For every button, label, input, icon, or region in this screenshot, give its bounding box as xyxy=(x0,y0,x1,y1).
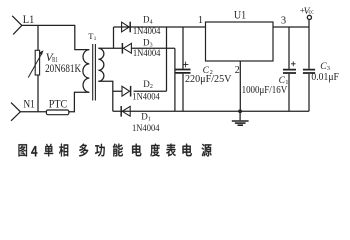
capacitor C2 xyxy=(176,27,191,111)
svg-text:3: 3 xyxy=(327,65,330,72)
diode D2 xyxy=(122,86,131,97)
svg-text:1000μF/16V: 1000μF/16V xyxy=(242,85,288,96)
svg-text:4: 4 xyxy=(150,19,153,25)
svg-text:L1: L1 xyxy=(23,12,35,26)
svg-text:1N4004: 1N4004 xyxy=(132,92,160,102)
wire ground rail xyxy=(113,110,309,112)
svg-text:PTC: PTC xyxy=(49,97,67,111)
wire L1 top xyxy=(22,25,89,49)
svg-text:3: 3 xyxy=(281,16,286,27)
wire negative bus xyxy=(174,48,176,111)
svg-text:1: 1 xyxy=(94,36,97,42)
svg-text:2: 2 xyxy=(150,84,153,90)
wire U1 output xyxy=(273,26,309,28)
svg-text:N1: N1 xyxy=(23,97,35,111)
svg-text:0.01μF: 0.01μF xyxy=(311,72,339,83)
svg-text:1N4004: 1N4004 xyxy=(132,123,160,133)
terminal +Vcc xyxy=(307,15,311,19)
thermistor PTC xyxy=(46,110,68,115)
diode D3 xyxy=(122,43,131,54)
wire U1 pin2 xyxy=(239,61,241,111)
diode D1 xyxy=(121,106,130,117)
wire N1 to PTC xyxy=(20,111,46,113)
svg-text:U1: U1 xyxy=(234,7,246,21)
capacitor C1 xyxy=(283,27,296,111)
caption text xyxy=(18,144,211,157)
ground xyxy=(232,111,249,125)
varistor VR1 xyxy=(28,25,43,111)
wire top rail xyxy=(114,26,206,28)
svg-text:1: 1 xyxy=(198,15,203,26)
svg-text:220μF/25V: 220μF/25V xyxy=(185,74,232,85)
svg-text:1N4004: 1N4004 xyxy=(133,48,161,58)
transformer T1 secondary winding xyxy=(98,48,104,81)
capacitor C3 xyxy=(303,20,315,112)
wire D3 anode xyxy=(131,47,175,49)
svg-text:2: 2 xyxy=(235,65,240,76)
terminal L1 xyxy=(12,16,22,35)
wire node B xyxy=(98,81,122,111)
wire node A xyxy=(98,27,123,48)
svg-text:1: 1 xyxy=(148,117,151,123)
transformer T1 core xyxy=(93,44,96,101)
transformer T1 primary winding xyxy=(83,50,89,93)
junction dot xyxy=(238,109,242,113)
svg-text:20N681K: 20N681K xyxy=(45,63,82,75)
svg-text:cc: cc xyxy=(309,10,315,16)
terminal N1 xyxy=(11,103,20,121)
wire PTC to primary xyxy=(69,92,89,112)
wire D2 cathode xyxy=(134,90,167,92)
wire positive bus xyxy=(166,27,168,91)
diode D4 xyxy=(122,22,131,33)
regulator U1 xyxy=(206,22,274,61)
